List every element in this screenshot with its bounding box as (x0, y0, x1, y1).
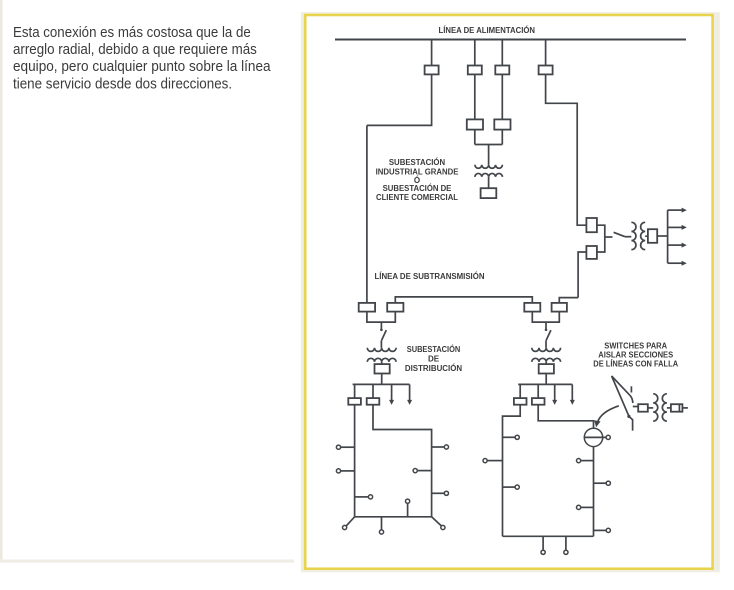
wire: blade to coil (545, 341, 547, 348)
fuse SQ-L1 (348, 398, 361, 405)
white interior (307, 16, 712, 567)
wire: T3 to bus (381, 374, 383, 385)
wire: left bus arrow 2 (409, 384, 411, 400)
wire: right loop east riser (538, 405, 593, 429)
svg-text:SUBESTACIÓN: SUBESTACIÓN (407, 345, 461, 354)
node tap E2 (606, 481, 610, 485)
node tap E2 (413, 469, 417, 473)
svg-text:equipo, pero cualquier punto s: equipo, pero cualquier punto sobre la lí… (13, 59, 271, 75)
transformer T3 primary coil (367, 348, 396, 352)
node switch contact left (380, 329, 383, 332)
fuse SQ-R2 (532, 398, 545, 405)
fuse box T2 (648, 229, 657, 243)
transformer T4 secondary coil (532, 358, 561, 362)
wire: arrow feeder 4 (668, 262, 683, 264)
transformer T5 secondary coil (662, 394, 667, 421)
switch blade A (612, 376, 630, 395)
wire: V4 to right riser (546, 74, 587, 225)
node tap W2 (336, 469, 340, 473)
wire: T2 to fuse (645, 235, 648, 237)
transformer T3 secondary coil (367, 358, 396, 362)
wire: switch to fuse1 (633, 406, 638, 408)
wire: right loop bottom stub 1 (542, 536, 544, 550)
switch contact hook (630, 395, 633, 403)
wire: circle horizontal (584, 436, 606, 438)
wire: left bus (353, 383, 410, 385)
load box T4 (539, 364, 554, 373)
wire: coil to fuse2 (667, 407, 671, 409)
wire: U1 to U2 link (597, 225, 605, 252)
node bottom 2 (564, 550, 568, 554)
wire: left loop tap E3 (432, 492, 445, 494)
switch blade right tap (614, 232, 625, 236)
wire: right bus vertical (667, 210, 669, 263)
wire: T1 to load (488, 177, 490, 188)
wire: left loop tap W2 (341, 470, 355, 472)
wire: drop V3 (501, 40, 503, 66)
breaker U2 lower right tap (586, 246, 597, 259)
node tap W1 (515, 435, 519, 439)
wire: arrow feeder 3 (668, 244, 683, 246)
node tap W3 (368, 495, 372, 499)
wire: right substation join (532, 312, 559, 323)
wire: switch tap right (605, 236, 613, 238)
load box T1 (481, 188, 497, 198)
transformer T2 secondary coil (641, 222, 646, 249)
wire: V3 mid (501, 74, 503, 119)
wire: left loop tap E2 inward (417, 470, 431, 472)
wire: drop V4 (545, 40, 547, 66)
wire: V2 low (474, 130, 476, 145)
wire: right loop east vertical below circle (593, 447, 595, 537)
transformer T1 secondary coil (475, 173, 503, 176)
node tap E3 (444, 491, 448, 495)
wire: drop L2 (372, 384, 374, 398)
breaker S3 (524, 303, 540, 312)
breaker S1 (359, 303, 375, 312)
breaker SQ-V3a (495, 66, 509, 75)
wire: industrial stem (488, 145, 490, 165)
wire: left loop west vertical (354, 405, 356, 517)
wire: blade to coil (625, 236, 631, 238)
breaker SQ-V3b (494, 119, 510, 129)
wire: left loop tap W3 inward (355, 496, 369, 498)
svg-text:DE: DE (428, 355, 440, 364)
node SE (441, 525, 445, 529)
wire: right loop tap E3 inward (581, 506, 594, 508)
wire: arrow feeder 2 (668, 226, 683, 228)
wire: right substation stem (545, 322, 547, 330)
switch lower link (629, 416, 633, 430)
wire: left loop tap E1 (432, 446, 445, 448)
wire: fuse1 to coil (648, 407, 653, 409)
yellow frame (305, 15, 712, 569)
wire: U2 left down to subtransmission (578, 252, 586, 298)
switch blade B (612, 376, 629, 416)
node switch contact right (545, 329, 548, 332)
breaker U1 upper right tap (586, 218, 597, 232)
svg-text:CLIENTE COMERCIAL: CLIENTE COMERCIAL (376, 193, 458, 202)
fuse SQ-R1 (514, 398, 527, 405)
wire: arrow feeder 1 (668, 209, 683, 211)
breaker SQ-V2a (468, 66, 482, 75)
wire: T4 to bus (545, 374, 547, 385)
svg-text:SWITCHES PARA: SWITCHES PARA (604, 342, 667, 351)
wire: T4 to load (545, 362, 547, 364)
wire: right loop bottom stub 2 (565, 536, 567, 550)
wire: V3 low (501, 130, 503, 145)
svg-text:SUBESTACIÓN: SUBESTACIÓN (389, 158, 446, 167)
node tap E1 (577, 459, 581, 463)
node tap E4 (606, 528, 610, 532)
wire: drop L1 (354, 384, 356, 398)
node SW (343, 525, 347, 529)
wire: left loop east riser (373, 405, 432, 517)
wire: right bus arrow 2 (571, 384, 573, 400)
breaker SQ-V1 (425, 66, 439, 75)
wire: industrial join (475, 144, 503, 146)
svg-text:arreglo radial, debido a que r: arreglo radial, debido a que requiere má… (13, 42, 257, 58)
node tap E1 (444, 445, 448, 449)
wire: left loop bottom-up stub (407, 503, 409, 516)
panel beige mat (301, 12, 720, 572)
transformer T5 primary coil (653, 394, 658, 421)
load box T3 (375, 364, 390, 373)
node stub top (406, 499, 410, 503)
breaker S2 (387, 303, 403, 312)
fuse box F2 divider (678, 404, 680, 412)
wire: left loop S stub (381, 517, 383, 530)
wire: T3 to load (381, 362, 383, 364)
wire: left loop SE diagonal (432, 517, 442, 526)
wire: fuse to bus (657, 235, 667, 237)
pointer arrow to circle (598, 406, 619, 423)
wire: blade to coil (380, 341, 382, 348)
breaker SQ-V2b (467, 119, 483, 129)
fuse box F1 (638, 404, 648, 412)
node tap E3 (577, 505, 581, 509)
fuse box F2 (671, 404, 683, 412)
wire: drop V2 (474, 40, 476, 66)
wire: left loop vertical (366, 125, 368, 303)
fuse SQ-L2 (367, 398, 380, 405)
wire: V1 lower + jog left (367, 74, 432, 125)
wire: drop R2 (537, 384, 539, 398)
wire: left substation join (367, 312, 395, 323)
wire: right loop tap W2 (487, 460, 502, 462)
wire: left bus arrow 1 (391, 384, 393, 400)
svg-text:Esta conexión es más costosa q: Esta conexión es más costosa que la de (13, 25, 251, 41)
bottom page edge strip (0, 560, 294, 563)
node tap W3 (515, 485, 519, 489)
wire: right loop tap E4 (594, 529, 607, 531)
switch blade left substation (381, 330, 386, 341)
wire: left substation stem (380, 322, 382, 330)
wire: right loop bottom (503, 535, 594, 537)
node tap W2 (483, 459, 487, 463)
svg-text:LÍNEA DE ALIMENTACIÓN: LÍNEA DE ALIMENTACIÓN (439, 26, 536, 35)
switch blade right substation (546, 330, 551, 341)
sectionalizer switch top tick (630, 386, 632, 392)
transformer T2 primary coil (631, 222, 636, 249)
wire: right loop west riser (503, 405, 521, 537)
svg-text:AISLAR SECCIONES: AISLAR SECCIONES (598, 350, 674, 359)
wire: right loop tap W3 inward (503, 486, 516, 488)
wire: left loop tap W1 (341, 446, 355, 448)
wire: right loop tap E1 inward (581, 460, 594, 462)
wire: drop V1 (431, 40, 433, 66)
transformer T1 primary coil (475, 165, 503, 168)
svg-text:DE LÍNEAS CON FALLA: DE LÍNEAS CON FALLA (593, 359, 678, 368)
svg-text:SUBESTACIÓN DE: SUBESTACIÓN DE (383, 184, 452, 193)
wire: drop R1 (519, 384, 521, 398)
transformer T4 primary coil (532, 348, 561, 352)
wire: fuse2 tail (682, 407, 688, 409)
svg-text:LÍNEA DE SUBTRANSMISIÓN: LÍNEA DE SUBTRANSMISIÓN (375, 272, 485, 281)
node S (379, 530, 383, 534)
wire: left loop SW diagonal (346, 517, 354, 526)
wire: V2 mid (474, 74, 476, 119)
wire: right loop tap W1 inward (503, 436, 516, 438)
breaker S4 (552, 303, 567, 312)
node tap W1 (336, 445, 340, 449)
switch hinge dot (627, 415, 630, 418)
svg-text:DISTRIBUCIÓN: DISTRIBUCIÓN (405, 364, 462, 373)
wire: subtransmission horizontal (395, 297, 532, 303)
sectionalizing circle switch (584, 428, 602, 446)
wire: right bus arrow 1 (554, 384, 556, 400)
wire: left loop bottom (355, 516, 432, 518)
breaker SQ-V4 (539, 66, 553, 75)
node bottom 1 (541, 550, 545, 554)
svg-text:tiene servicio desde dos direc: tiene servicio desde dos direcciones. (13, 76, 232, 92)
node circle east (606, 435, 610, 439)
left page edge strip (0, 0, 3, 562)
wire: right loop tap E2 (594, 482, 607, 484)
wire: right bus (518, 383, 572, 385)
wire: right link to S4 (559, 298, 578, 303)
wire: feeder main line (335, 38, 686, 40)
